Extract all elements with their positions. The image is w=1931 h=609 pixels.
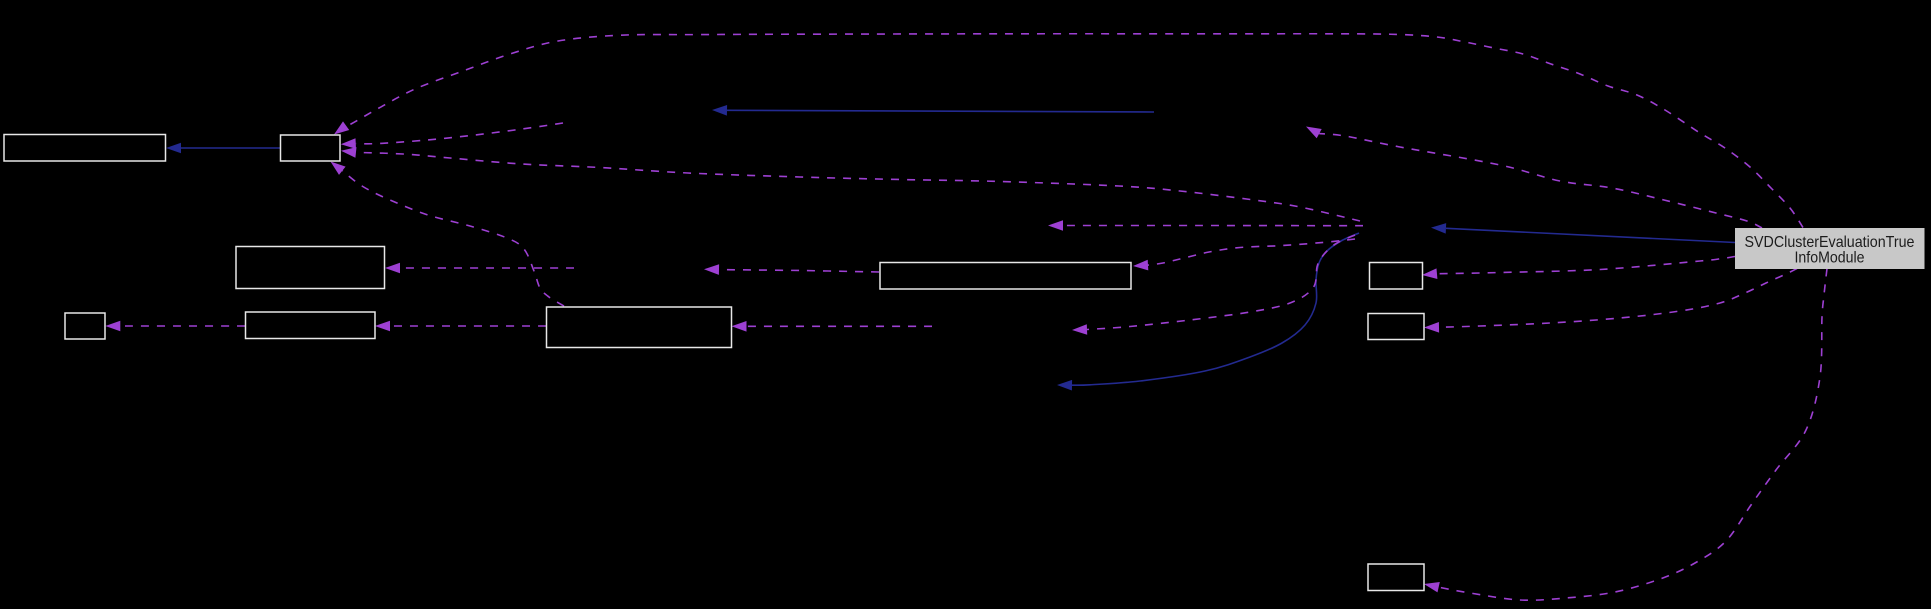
node box9 [1368, 314, 1424, 340]
edge dashed box5->box4 [120, 325, 245, 327]
node box4 [65, 313, 105, 339]
edge blue inherit box2->box1 [181, 147, 280, 149]
node box3 [236, 247, 385, 289]
edge dashed grey->box10 [1439, 269, 1827, 601]
node box2 [281, 135, 341, 161]
edge blue inherit grey->X3 [1446, 228, 1735, 242]
edge dashed box6->box5 [390, 325, 546, 327]
node box6 [547, 307, 732, 348]
edge dashed box6->box2 [342, 171, 564, 306]
edge dashed X10->box6 [747, 325, 933, 327]
edge dashed box7->X9 [719, 270, 879, 272]
node box7 [880, 263, 1131, 290]
edge dashed X3->box2 [356, 152, 1360, 221]
edge dashed X3->box7 [1148, 239, 1355, 265]
node box8 [1370, 263, 1423, 290]
svg-text:SVDClusterEvaluationTrue: SVDClusterEvaluationTrue [1745, 234, 1915, 251]
edge blue inherit X7->X2 [727, 110, 1154, 112]
node box5 [246, 312, 376, 339]
edge blue inherit X3->X6 [1072, 233, 1359, 385]
edge dashed grey->box9 [1439, 269, 1797, 328]
edge dashed X2->box2 [356, 123, 563, 144]
edge dashed grey->box2 top [346, 34, 1803, 228]
edge dashed grey->X7 [1319, 134, 1762, 228]
svg-text:InfoModule: InfoModule [1795, 250, 1865, 267]
node box10 [1368, 564, 1424, 591]
edge dashed X9->box3 [400, 267, 574, 269]
edge dashed X3->X8 [1063, 225, 1363, 227]
edge dashed X3->X10 [1087, 235, 1355, 330]
node SVDClusterEvaluationTrueInfoModule (current class, grey) [1735, 228, 1925, 269]
node box1 [4, 135, 166, 162]
edge dashed grey->box8 [1437, 257, 1735, 274]
